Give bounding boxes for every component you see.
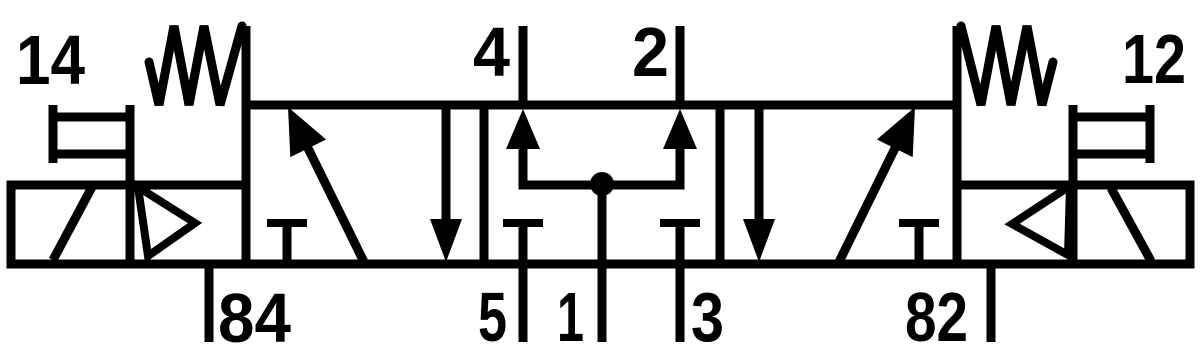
diagonal arrow right cell: shaft bbox=[838, 138, 900, 264]
blocked port T, port 5: stem bbox=[519, 223, 528, 264]
return spring right bbox=[961, 26, 1053, 105]
position divider right bbox=[716, 105, 725, 264]
position divider left bbox=[480, 105, 489, 264]
pilot triangle left bbox=[138, 187, 195, 256]
manual override right: bottom line bbox=[1073, 150, 1150, 159]
pilot port 82 line bbox=[987, 264, 996, 342]
down arrow right cell: stem bbox=[755, 105, 764, 223]
solenoid box left bbox=[11, 185, 246, 264]
blocked port T, port 3: bar bbox=[660, 219, 700, 227]
solenoid box right bbox=[957, 185, 1190, 264]
port 1 line bbox=[598, 184, 607, 342]
pilot port 84 line bbox=[205, 264, 214, 342]
up arrow to port 2: head bbox=[663, 109, 697, 149]
diagonal arrow left cell: shaft bbox=[303, 138, 365, 264]
right body vertical (spring anchor) bbox=[953, 26, 962, 105]
manual override left: top line bbox=[53, 113, 130, 122]
blocked port T, port 5: bar bbox=[503, 219, 543, 227]
down arrow right cell: head bbox=[743, 219, 775, 262]
pilot triangle right bbox=[1012, 186, 1070, 255]
svg-text:4: 4 bbox=[473, 13, 510, 91]
port 5 line bbox=[519, 264, 528, 342]
manual override left: outer bar bbox=[49, 105, 58, 163]
blocked port T, left cell: stem bbox=[283, 223, 292, 264]
manual override right: outer bar bbox=[1146, 105, 1155, 163]
svg-text:1: 1 bbox=[557, 278, 584, 356]
port 3 line bbox=[676, 264, 685, 342]
valve body (3-position frame) bbox=[246, 105, 957, 264]
svg-text:3: 3 bbox=[691, 278, 724, 356]
manual override left: bottom line bbox=[53, 150, 130, 159]
down arrow left cell: head bbox=[430, 219, 462, 262]
blocked port T, right cell: stem bbox=[915, 223, 924, 264]
manual override right: top line bbox=[1073, 113, 1150, 122]
svg-text:14: 14 bbox=[16, 21, 85, 99]
port 4 line bbox=[519, 26, 528, 105]
solenoid coil slash left bbox=[53, 187, 92, 260]
svg-text:12: 12 bbox=[1122, 20, 1186, 98]
blocked port T, left cell: bar bbox=[267, 219, 307, 227]
svg-text:84: 84 bbox=[218, 279, 291, 357]
return spring left bbox=[149, 26, 242, 105]
junction dot on port 1 bbox=[590, 172, 614, 196]
down arrow left cell: stem bbox=[442, 105, 451, 223]
up arrow to port 4: head bbox=[506, 109, 540, 149]
diagonal arrow left cell: head bbox=[288, 107, 326, 157]
svg-text:5: 5 bbox=[478, 278, 507, 356]
port 2 line bbox=[676, 26, 685, 105]
left body vertical (spring anchor) bbox=[242, 26, 251, 105]
blocked port T, port 3: stem bbox=[676, 223, 685, 264]
diagonal arrow right cell: head bbox=[877, 107, 915, 157]
solenoid coil slash right bbox=[1111, 188, 1151, 261]
right box internal divider / manual override stem bbox=[1069, 105, 1078, 264]
svg-text:82: 82 bbox=[905, 278, 968, 356]
svg-text:2: 2 bbox=[632, 13, 669, 91]
left box internal divider / manual override stem bbox=[126, 105, 135, 264]
center connector line with up-arrow stems bbox=[523, 145, 680, 185]
blocked port T, right cell: bar bbox=[899, 219, 939, 227]
